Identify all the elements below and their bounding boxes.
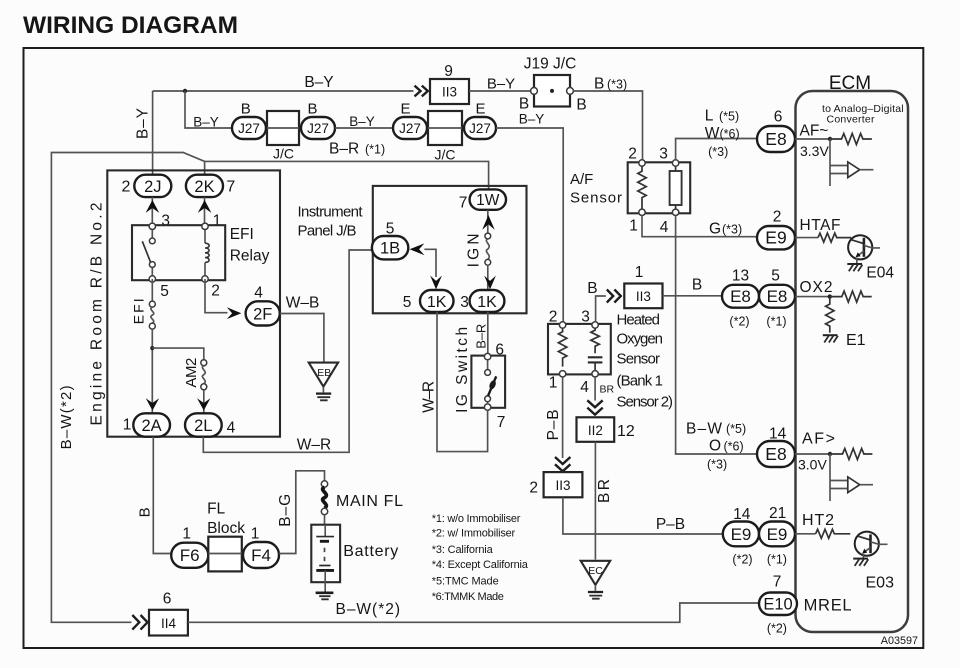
svg-text:2K: 2K xyxy=(194,178,214,196)
svg-text:Instrument: Instrument xyxy=(298,204,364,221)
svg-text:4: 4 xyxy=(660,219,669,236)
connector II4 xyxy=(149,610,188,636)
wire to J27 row xyxy=(185,91,232,128)
svg-text:1K: 1K xyxy=(427,294,447,311)
svg-text:B–Y: B–Y xyxy=(349,114,375,129)
svg-text:7: 7 xyxy=(226,179,235,196)
svg-text:(*3): (*3) xyxy=(607,78,627,92)
svg-text:B–R: B–R xyxy=(474,324,489,349)
svg-text:II3: II3 xyxy=(442,85,457,100)
resistor OX2 horizontal xyxy=(830,291,872,302)
ground EB xyxy=(309,363,338,387)
wire O2 term1 down (P-B) xyxy=(562,377,564,458)
svg-text:5: 5 xyxy=(386,221,395,238)
wire B-Y vertical to 2J xyxy=(152,91,154,175)
wire B-Y main horizontal xyxy=(153,90,414,92)
svg-text:W–R: W–R xyxy=(421,381,438,413)
svg-text:E8: E8 xyxy=(765,129,786,149)
svg-text:EB: EB xyxy=(317,367,331,379)
svg-text:E: E xyxy=(400,101,410,118)
svg-text:1B: 1B xyxy=(380,239,400,257)
connector 1W xyxy=(470,189,506,209)
svg-text:3: 3 xyxy=(161,213,170,230)
arrow up into 2J xyxy=(146,200,160,213)
svg-text:6: 6 xyxy=(163,590,172,607)
wire 2K to relay pin1 xyxy=(204,197,206,226)
wire E8 to resistor AF xyxy=(795,138,830,140)
svg-text:3.3V: 3.3V xyxy=(800,143,829,159)
J/C box 2 xyxy=(428,111,462,145)
resistor AF2 xyxy=(830,449,872,460)
ground battery xyxy=(316,591,334,594)
svg-text:J19 J/C: J19 J/C xyxy=(524,56,577,73)
wire IGN to 1K right xyxy=(487,265,489,290)
svg-text:B: B xyxy=(576,97,586,114)
svg-text:L: L xyxy=(705,107,714,124)
ground EC xyxy=(581,561,611,585)
svg-text:B: B xyxy=(137,507,154,517)
wire A/F term3 to E8 pin6 xyxy=(676,139,757,160)
heater element inside A/F xyxy=(670,171,682,205)
svg-text:2F: 2F xyxy=(253,305,272,323)
svg-text:II4: II4 xyxy=(161,616,177,631)
junction connector J19 xyxy=(534,75,570,107)
relay terminals xyxy=(149,223,155,229)
svg-text:(*3): (*3) xyxy=(707,457,727,471)
arrow down into 2A xyxy=(146,398,159,410)
svg-text:B: B xyxy=(241,101,251,118)
svg-text:2: 2 xyxy=(549,308,558,325)
svg-text:B–Y: B–Y xyxy=(519,112,545,127)
resistor left inside O2 xyxy=(558,328,566,366)
svg-text:Sensor: Sensor xyxy=(570,189,622,206)
svg-text:B: B xyxy=(307,101,317,118)
connector J27 #3 xyxy=(393,117,427,139)
resistor inside A/F xyxy=(638,166,646,209)
connector E8 pin6 xyxy=(757,126,795,152)
svg-text:P–B: P–B xyxy=(545,409,562,440)
svg-text:J/C: J/C xyxy=(273,146,294,162)
svg-text:AF>: AF> xyxy=(802,430,835,447)
svg-text:3.0V: 3.0V xyxy=(798,457,827,473)
svg-text:II3: II3 xyxy=(636,289,651,304)
wire E8 pair to resistor OX2 xyxy=(795,296,830,298)
svg-text:W–B: W–B xyxy=(286,295,320,312)
svg-text:Engine Room R/B No.2: Engine Room R/B No.2 xyxy=(89,203,106,426)
connector E8 pair OX2 xyxy=(722,285,759,308)
svg-text:7: 7 xyxy=(497,414,506,431)
svg-text:FL: FL xyxy=(207,500,225,517)
fuse MAIN FL xyxy=(321,481,327,487)
label B vertical xyxy=(137,507,154,517)
wire 2A to F6 xyxy=(153,437,171,554)
svg-text:J27: J27 xyxy=(469,121,491,136)
svg-text:P–B: P–B xyxy=(656,516,685,533)
battery xyxy=(311,525,340,583)
svg-text:(*1): (*1) xyxy=(365,143,385,157)
wire II3 (1) to E8 pair (B) xyxy=(663,295,723,297)
wire 2K stub xyxy=(204,161,206,174)
relay EFI box xyxy=(132,225,225,280)
svg-text:*5:TMC Made: *5:TMC Made xyxy=(432,575,499,587)
svg-text:14: 14 xyxy=(733,506,751,523)
op-amp AF xyxy=(829,139,831,186)
svg-text:BR: BR xyxy=(600,383,615,395)
connector 2J xyxy=(134,175,171,197)
ground E03 xyxy=(853,558,868,560)
svg-text:2L: 2L xyxy=(194,417,212,435)
svg-text:Battery: Battery xyxy=(343,543,398,560)
label B-W(*2) vertical xyxy=(58,385,75,449)
transistor E03 xyxy=(855,532,879,556)
svg-text:E03: E03 xyxy=(866,574,895,591)
A/F terminals xyxy=(639,160,645,166)
wire fuse to 2A with junction xyxy=(151,329,153,413)
svg-text:AM2: AM2 xyxy=(183,358,200,388)
wire E9 pair to resistor HT2 xyxy=(795,533,816,535)
svg-text:3: 3 xyxy=(659,145,668,162)
svg-text:F4: F4 xyxy=(251,546,271,565)
svg-text:BR: BR xyxy=(596,479,613,503)
connector J27 #2 xyxy=(301,117,335,139)
wire E8 to resistor AF2 xyxy=(795,453,830,455)
wire B(*3) from J19 to A/F sensor xyxy=(573,91,642,160)
wire J27#4 to heated O2 sensor term 2 xyxy=(496,128,563,322)
heater right inside O2 xyxy=(591,328,599,353)
svg-text:1: 1 xyxy=(549,375,558,392)
arrow right into 2F xyxy=(227,307,242,319)
svg-text:2: 2 xyxy=(773,208,782,225)
wire AM2 to 2L xyxy=(203,390,205,414)
svg-text:B–Y: B–Y xyxy=(135,108,152,139)
svg-text:E: E xyxy=(475,101,485,118)
svg-text:II3: II3 xyxy=(555,478,570,493)
wire O2 term3 to II3 (1) xyxy=(596,296,606,322)
fuse IGN xyxy=(485,233,491,239)
svg-text:12: 12 xyxy=(617,423,635,440)
svg-text:B–Y: B–Y xyxy=(193,115,219,130)
svg-text:E10: E10 xyxy=(763,596,792,614)
arrow up into 1W xyxy=(482,215,495,230)
svg-text:5: 5 xyxy=(160,283,169,300)
svg-text:2: 2 xyxy=(211,283,220,300)
svg-text:WIRING DIAGRAM: WIRING DIAGRAM xyxy=(23,12,238,39)
label B-G vertical xyxy=(277,494,294,527)
connector 2K xyxy=(186,175,223,197)
svg-text:E9: E9 xyxy=(731,525,752,544)
svg-text:*1: w/o Immobiliser: *1: w/o Immobiliser xyxy=(432,513,521,525)
svg-text:21: 21 xyxy=(769,505,786,522)
wire between J27 2 and 3 xyxy=(335,127,393,129)
svg-text:(*6): (*6) xyxy=(724,439,744,453)
svg-text:Sensor: Sensor xyxy=(617,351,661,368)
wire E9 to resistor HTAF xyxy=(795,237,818,239)
svg-text:J/C: J/C xyxy=(435,147,456,163)
chevron into II4 xyxy=(132,615,147,630)
svg-text:6: 6 xyxy=(774,108,783,125)
svg-text:(*2): (*2) xyxy=(732,552,752,566)
wire branch to AM2 xyxy=(152,348,204,360)
svg-text:E8: E8 xyxy=(730,287,751,306)
svg-text:1: 1 xyxy=(123,417,132,434)
svg-text:Panel J/B: Panel J/B xyxy=(298,223,357,240)
wire fuse to battery xyxy=(324,515,326,525)
svg-text:(*1): (*1) xyxy=(766,315,786,329)
connector 2L xyxy=(185,413,222,436)
svg-text:(*3): (*3) xyxy=(722,223,742,237)
chevron down into II3 (2) xyxy=(555,457,570,471)
svg-text:2A: 2A xyxy=(142,417,162,435)
svg-text:E9: E9 xyxy=(765,228,786,248)
svg-text:1: 1 xyxy=(213,213,222,230)
sensor heated oxygen box xyxy=(548,324,611,375)
svg-text:4: 4 xyxy=(580,379,589,396)
connector E8 pin14 xyxy=(757,441,795,467)
svg-text:3: 3 xyxy=(460,294,469,311)
chevron into II3 (1) xyxy=(607,290,621,303)
connector 1K left xyxy=(420,290,454,312)
svg-text:Relay: Relay xyxy=(230,247,270,264)
wire 2L to 1B (W-R) xyxy=(203,250,372,452)
svg-text:B–W: B–W xyxy=(686,421,722,438)
svg-text:B–G: B–G xyxy=(277,494,294,527)
svg-text:(*1): (*1) xyxy=(767,552,787,566)
connector II3 (1) xyxy=(624,284,662,309)
label B-Y vertical xyxy=(135,108,152,139)
chevron into II3 9 xyxy=(415,86,428,97)
svg-text:E8: E8 xyxy=(765,444,786,464)
svg-text:W: W xyxy=(705,125,720,142)
connector J27 #1 xyxy=(232,117,266,139)
connector II2 xyxy=(577,417,615,442)
svg-text:E04: E04 xyxy=(866,264,894,281)
ground E04 xyxy=(847,263,862,265)
transistor E04 xyxy=(848,235,872,259)
connector J27 #4 xyxy=(464,117,496,139)
svg-text:J27: J27 xyxy=(399,121,421,136)
svg-text:B–W(*2): B–W(*2) xyxy=(58,385,75,449)
svg-text:9: 9 xyxy=(444,63,453,80)
wire IG switch pin7 to 1K left (W-R) xyxy=(437,312,488,452)
svg-text:B: B xyxy=(594,76,604,93)
svg-text:(*2): (*2) xyxy=(767,621,787,635)
svg-text:O: O xyxy=(709,438,721,455)
wire O2 term4 down (BR) xyxy=(594,377,596,401)
svg-text:G: G xyxy=(709,221,721,238)
svg-text:ECM: ECM xyxy=(829,73,871,94)
connector 1B xyxy=(372,236,408,259)
fuse AM2 xyxy=(201,360,207,366)
svg-text:B–Y: B–Y xyxy=(487,76,515,93)
resistor HTAF xyxy=(818,233,851,242)
sensor A/F box xyxy=(628,162,691,213)
svg-text:*6:TMMK Made: *6:TMMK Made xyxy=(432,591,504,603)
svg-text:(*5): (*5) xyxy=(719,109,739,123)
wire A/F term4 to E8 pin14 xyxy=(676,216,757,455)
relay switch xyxy=(149,238,155,244)
svg-text:14: 14 xyxy=(769,425,787,442)
svg-text:B: B xyxy=(692,277,702,294)
block FL Block xyxy=(208,537,242,572)
svg-text:(Bank 1: (Bank 1 xyxy=(617,373,664,390)
labels G row / connector E9 pin2 xyxy=(757,226,795,249)
wire 2J to relay pin3 xyxy=(151,197,153,226)
O2 terminals xyxy=(559,322,565,328)
svg-text:13: 13 xyxy=(732,267,749,284)
wire F4 to MAIN FL xyxy=(279,471,325,554)
svg-text:F6: F6 xyxy=(180,546,200,565)
svg-text:B: B xyxy=(587,280,597,297)
arrow left into 1B xyxy=(410,243,425,255)
svg-text:1: 1 xyxy=(251,525,260,542)
svg-text:1: 1 xyxy=(635,264,644,281)
svg-text:2J: 2J xyxy=(144,178,161,196)
svg-text:(*5): (*5) xyxy=(726,422,746,436)
svg-text:B–R: B–R xyxy=(329,141,359,158)
svg-text:AF~: AF~ xyxy=(800,122,829,139)
wire relay pin2 to 2F xyxy=(205,279,228,313)
svg-text:Heated: Heated xyxy=(617,311,661,328)
connector F4 xyxy=(243,542,279,568)
wire B-W(*2) left loop from 2K top to II4 xyxy=(51,153,488,623)
connector 1K right xyxy=(470,290,505,312)
svg-text:B–W(*2): B–W(*2) xyxy=(336,601,401,618)
svg-text:*2: w/ Immobiliser: *2: w/ Immobiliser xyxy=(432,528,516,540)
op-amp AF2 xyxy=(829,454,831,501)
block Engine Room R/B No.2 xyxy=(107,170,280,436)
node junction at B-Y xyxy=(183,89,187,93)
svg-text:J27: J27 xyxy=(238,121,260,136)
svg-text:Converter: Converter xyxy=(827,113,876,125)
svg-text:HT2: HT2 xyxy=(802,512,834,529)
svg-text:2: 2 xyxy=(628,145,637,162)
connector 2A xyxy=(133,413,170,436)
svg-text:Sensor 2): Sensor 2) xyxy=(617,393,674,410)
svg-text:5: 5 xyxy=(771,268,780,285)
resistor AF xyxy=(830,134,872,145)
svg-text:A/F: A/F xyxy=(570,171,593,188)
svg-text:1K: 1K xyxy=(477,294,497,311)
svg-text:EFI: EFI xyxy=(131,298,147,324)
svg-text:7: 7 xyxy=(773,573,782,590)
connector II3 (9) xyxy=(430,79,469,104)
svg-text:MREL: MREL xyxy=(804,596,852,614)
ground E1 xyxy=(823,334,838,336)
svg-text:IGN: IGN xyxy=(466,233,483,267)
svg-text:Block: Block xyxy=(207,520,245,537)
wire II4 to E10 (MREL) xyxy=(188,603,759,622)
relay coil xyxy=(204,230,206,244)
svg-text:E9: E9 xyxy=(767,525,788,544)
arrow down into 2L xyxy=(197,398,210,410)
svg-text:J27: J27 xyxy=(307,121,329,136)
connector F6 xyxy=(171,543,208,568)
svg-text:IG Switch: IG Switch xyxy=(454,327,471,413)
svg-text:3: 3 xyxy=(581,308,590,325)
block Instrument Panel J/B xyxy=(373,186,527,313)
wire 1K right to IG switch (B-R) xyxy=(487,312,489,354)
svg-text:2: 2 xyxy=(122,179,131,196)
svg-text:E8: E8 xyxy=(767,287,788,306)
svg-text:E1: E1 xyxy=(846,332,866,349)
svg-text:EFI: EFI xyxy=(230,226,254,243)
connector E10 xyxy=(759,593,797,616)
svg-text:*4: Except California: *4: Except California xyxy=(432,559,529,571)
svg-text:1: 1 xyxy=(182,525,191,542)
relay switch contact wires xyxy=(151,230,153,276)
chevron down into II2 xyxy=(587,400,602,414)
svg-text:4: 4 xyxy=(254,285,263,302)
svg-text:Oxygen: Oxygen xyxy=(617,330,664,347)
arrow down into 1K left xyxy=(430,276,442,290)
arrow up into 2K xyxy=(198,200,212,213)
svg-text:5: 5 xyxy=(403,294,412,311)
resistor OX2 vertical xyxy=(826,297,834,333)
svg-text:II2: II2 xyxy=(588,423,603,438)
svg-text:B: B xyxy=(519,96,529,113)
connector E9 pair HT2 xyxy=(723,522,759,547)
wire 2F to EB ground xyxy=(280,314,324,363)
svg-text:(*6): (*6) xyxy=(720,127,740,141)
connector II3 (2) xyxy=(544,472,583,497)
svg-text:(*2): (*2) xyxy=(729,315,749,329)
svg-text:*3: California: *3: California xyxy=(432,544,494,556)
svg-text:1: 1 xyxy=(629,217,638,234)
svg-text:MAIN FL: MAIN FL xyxy=(336,493,403,510)
svg-text:7: 7 xyxy=(459,195,468,212)
svg-text:A03597: A03597 xyxy=(881,635,918,647)
wire II3 (2) to E9 pair (P-B) xyxy=(563,497,723,534)
wire 1W to IGN fuse xyxy=(487,210,489,233)
svg-text:B–Y: B–Y xyxy=(304,74,333,91)
svg-text:W–R: W–R xyxy=(297,437,331,454)
svg-text:EC: EC xyxy=(588,565,603,577)
svg-text:4: 4 xyxy=(227,420,236,437)
svg-text:1W: 1W xyxy=(476,192,500,209)
wire II2 to EC ground (BR) xyxy=(594,442,596,560)
ECM box xyxy=(796,91,909,632)
wire 1B arrow to 1K left xyxy=(424,249,436,277)
fuse EFI xyxy=(149,301,155,307)
J/C box 1 xyxy=(267,111,299,145)
svg-text:OX2: OX2 xyxy=(800,279,833,296)
connector 2F xyxy=(246,301,280,325)
switch IG xyxy=(471,356,505,408)
arrow down into 1K right xyxy=(484,276,496,290)
wire A/F term1 to E9 pin2 (G) xyxy=(642,216,757,237)
svg-text:(*3): (*3) xyxy=(708,145,728,159)
wire relay pin5 down xyxy=(151,279,153,301)
wire II3 to J19 xyxy=(469,90,531,92)
resistor HT2 xyxy=(816,529,851,538)
wire battery to ground xyxy=(324,582,326,591)
svg-text:2: 2 xyxy=(529,479,538,496)
